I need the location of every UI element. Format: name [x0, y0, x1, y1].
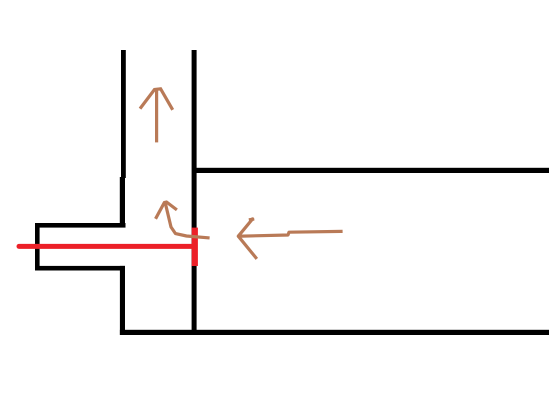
flow arrow: long leftward arrow in right duct: [238, 219, 341, 257]
wall: bottom of right horizontal duct: [120, 330, 549, 335]
red probe tip bar (vertical): [192, 228, 198, 266]
red probe line (horizontal): [19, 244, 194, 249]
wall: left end cap of stub duct: [35, 223, 40, 270]
wall: left side of top vertical duct (lower part, slight jog): [120, 177, 125, 228]
wall: left side of top vertical duct (upper part): [121, 50, 126, 178]
wall: top of left stub duct: [35, 223, 126, 228]
flow arrow: upward in top duct: [141, 89, 172, 141]
wall: bottom of left stub duct: [35, 266, 125, 271]
wall: right side of vertical duct (full height): [192, 50, 197, 335]
wall: top of right horizontal duct: [196, 168, 549, 173]
flow arrow: bent arrow turning up at junction: [156, 202, 208, 238]
wall: left side of bottom vertical duct: [120, 266, 125, 335]
